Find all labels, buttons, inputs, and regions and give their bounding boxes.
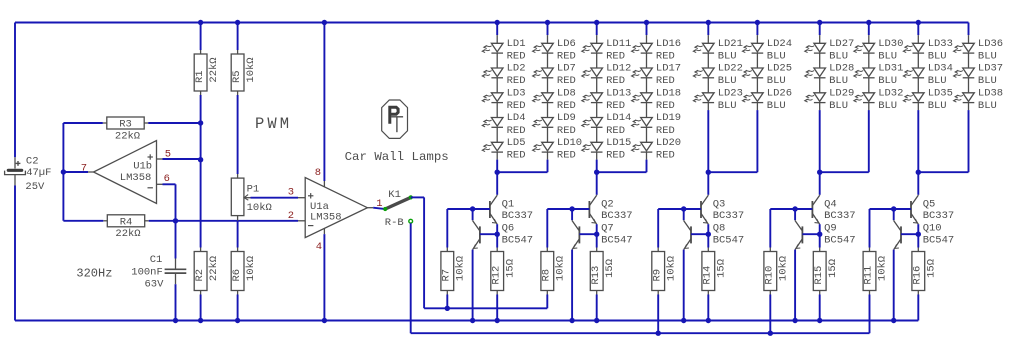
svg-text:R13: R13 — [590, 266, 602, 285]
svg-text:RED: RED — [606, 150, 625, 162]
svg-text:LD21: LD21 — [718, 38, 743, 50]
svg-text:LD22: LD22 — [718, 63, 743, 75]
svg-text:R16: R16 — [912, 266, 924, 285]
svg-text:5: 5 — [165, 148, 171, 160]
svg-text:3: 3 — [288, 187, 294, 199]
svg-text:BLU: BLU — [767, 75, 786, 87]
svg-text:RED: RED — [606, 51, 625, 63]
svg-text:K1: K1 — [388, 189, 401, 201]
svg-text:Q10: Q10 — [923, 223, 942, 235]
svg-text:R12: R12 — [490, 266, 502, 285]
svg-text:RED: RED — [507, 51, 526, 63]
svg-text:10kΩ: 10kΩ — [245, 256, 257, 281]
svg-text:LD6: LD6 — [557, 38, 576, 50]
svg-text:BC337: BC337 — [601, 210, 633, 222]
svg-text:BLU: BLU — [767, 100, 786, 112]
svg-text:LD19: LD19 — [656, 112, 681, 124]
svg-text:2: 2 — [288, 210, 294, 222]
svg-text:Q8: Q8 — [713, 223, 726, 235]
svg-text:LD8: LD8 — [557, 87, 576, 99]
svg-text:10kΩ: 10kΩ — [877, 256, 889, 281]
svg-text:P1: P1 — [247, 183, 260, 195]
svg-text:BC547: BC547 — [502, 234, 534, 246]
svg-text:BLU: BLU — [718, 75, 737, 87]
svg-text:LD17: LD17 — [656, 63, 681, 75]
svg-text:RED: RED — [656, 51, 675, 63]
svg-text:LD20: LD20 — [656, 137, 681, 149]
svg-text:15Ω: 15Ω — [604, 259, 616, 278]
svg-text:LD31: LD31 — [878, 63, 903, 75]
svg-text:C2: C2 — [26, 155, 39, 167]
svg-text:LD23: LD23 — [718, 87, 743, 99]
svg-text:LD1: LD1 — [507, 38, 526, 50]
svg-text:22kΩ: 22kΩ — [208, 256, 220, 281]
svg-text:BC547: BC547 — [713, 234, 745, 246]
svg-text:BLU: BLU — [928, 100, 947, 112]
svg-text:Q7: Q7 — [601, 223, 614, 235]
svg-text:22kΩ: 22kΩ — [115, 228, 140, 240]
svg-text:RED: RED — [557, 150, 576, 162]
svg-text:BLU: BLU — [878, 51, 897, 63]
svg-text:BLU: BLU — [767, 51, 786, 63]
svg-text:R9: R9 — [651, 269, 663, 282]
svg-text:100nF: 100nF — [131, 266, 163, 278]
svg-text:15Ω: 15Ω — [716, 259, 728, 278]
svg-text:8: 8 — [315, 167, 321, 179]
svg-text:63V: 63V — [144, 279, 164, 291]
svg-text:RED: RED — [656, 125, 675, 137]
svg-text:LD30: LD30 — [878, 38, 903, 50]
svg-text:R11: R11 — [863, 266, 875, 285]
svg-text:BC337: BC337 — [824, 210, 856, 222]
svg-text:BLU: BLU — [718, 100, 737, 112]
svg-text:BC337: BC337 — [923, 210, 955, 222]
svg-text:Car Wall Lamps: Car Wall Lamps — [345, 150, 449, 164]
svg-text:Q4: Q4 — [824, 199, 837, 211]
svg-text:LM358: LM358 — [120, 172, 152, 184]
svg-text:Q5: Q5 — [923, 199, 936, 211]
svg-text:BC337: BC337 — [713, 210, 745, 222]
svg-text:LD36: LD36 — [978, 38, 1003, 50]
svg-text:LD14: LD14 — [606, 112, 631, 124]
svg-text:LD28: LD28 — [829, 63, 854, 75]
svg-text:6: 6 — [164, 173, 170, 185]
svg-text:10kΩ: 10kΩ — [665, 256, 677, 281]
svg-text:RED: RED — [557, 75, 576, 87]
svg-text:LD18: LD18 — [656, 87, 681, 99]
svg-text:RED: RED — [557, 100, 576, 112]
svg-text:RED: RED — [507, 125, 526, 137]
svg-text:R8: R8 — [541, 269, 553, 282]
svg-text:RED: RED — [606, 100, 625, 112]
svg-text:U1b: U1b — [133, 161, 152, 173]
svg-text:C1: C1 — [150, 254, 163, 266]
svg-text:BLU: BLU — [928, 75, 947, 87]
svg-text:R2: R2 — [194, 269, 206, 282]
svg-text:10kΩ: 10kΩ — [778, 256, 790, 281]
svg-text:R14: R14 — [702, 266, 714, 285]
svg-text:LD3: LD3 — [507, 87, 526, 99]
svg-text:BC547: BC547 — [824, 234, 856, 246]
svg-text:RED: RED — [656, 150, 675, 162]
svg-text:LD12: LD12 — [606, 63, 631, 75]
svg-text:LD27: LD27 — [829, 38, 854, 50]
svg-text:RED: RED — [507, 150, 526, 162]
svg-text:BLU: BLU — [978, 75, 997, 87]
svg-text:RED: RED — [656, 100, 675, 112]
svg-text:RED: RED — [507, 75, 526, 87]
svg-text:BLU: BLU — [829, 51, 848, 63]
svg-text:15Ω: 15Ω — [827, 259, 839, 278]
svg-text:Q1: Q1 — [502, 199, 515, 211]
svg-text:LD16: LD16 — [656, 38, 681, 50]
svg-text:R1: R1 — [194, 70, 206, 83]
svg-text:15Ω: 15Ω — [504, 259, 516, 278]
svg-text:BC547: BC547 — [923, 234, 955, 246]
svg-text:Q6: Q6 — [502, 223, 515, 235]
svg-text:LD7: LD7 — [557, 63, 576, 75]
svg-text:BLU: BLU — [878, 100, 897, 112]
svg-text:LD33: LD33 — [928, 38, 953, 50]
svg-text:LD13: LD13 — [606, 87, 631, 99]
svg-text:Q2: Q2 — [601, 199, 614, 211]
svg-text:25V: 25V — [25, 181, 45, 193]
svg-text:R5: R5 — [231, 70, 243, 83]
svg-text:BLU: BLU — [978, 100, 997, 112]
svg-text:RED: RED — [606, 125, 625, 137]
svg-text:10kΩ: 10kΩ — [245, 57, 257, 82]
svg-text:BLU: BLU — [829, 75, 848, 87]
svg-text:15Ω: 15Ω — [926, 259, 938, 278]
svg-text:R3: R3 — [119, 119, 132, 131]
svg-text:R6: R6 — [231, 269, 243, 282]
svg-text:BLU: BLU — [928, 51, 947, 63]
svg-text:LD2: LD2 — [507, 63, 526, 75]
svg-text:LD38: LD38 — [978, 87, 1003, 99]
svg-text:R7: R7 — [441, 269, 453, 282]
svg-text:BLU: BLU — [718, 51, 737, 63]
svg-text:RED: RED — [557, 125, 576, 137]
svg-text:R-B: R-B — [385, 217, 404, 229]
svg-text:47µF: 47µF — [26, 167, 51, 179]
svg-text:LD25: LD25 — [767, 63, 792, 75]
svg-text:BLU: BLU — [978, 51, 997, 63]
svg-text:22kΩ: 22kΩ — [115, 130, 140, 142]
svg-text:BLU: BLU — [829, 100, 848, 112]
svg-text:10kΩ: 10kΩ — [455, 256, 467, 281]
svg-text:10kΩ: 10kΩ — [555, 256, 567, 281]
svg-text:LD32: LD32 — [878, 87, 903, 99]
svg-text:LD4: LD4 — [507, 112, 526, 124]
svg-text:LD9: LD9 — [557, 112, 576, 124]
svg-text:BC547: BC547 — [601, 234, 633, 246]
svg-text:LD26: LD26 — [767, 87, 792, 99]
svg-text:LD15: LD15 — [606, 137, 631, 149]
svg-text:LD10: LD10 — [557, 137, 582, 149]
svg-text:Q9: Q9 — [824, 223, 837, 235]
svg-text:R15: R15 — [813, 266, 825, 285]
svg-text:LD34: LD34 — [928, 63, 953, 75]
svg-text:Q3: Q3 — [713, 199, 726, 211]
svg-text:LD37: LD37 — [978, 63, 1003, 75]
svg-text:R4: R4 — [120, 216, 133, 228]
svg-text:BC337: BC337 — [502, 210, 534, 222]
svg-text:22kΩ: 22kΩ — [208, 57, 220, 82]
svg-text:LD11: LD11 — [606, 38, 631, 50]
svg-text:R10: R10 — [764, 266, 776, 285]
svg-text:BLU: BLU — [878, 75, 897, 87]
svg-text:LD29: LD29 — [829, 87, 854, 99]
svg-text:LD24: LD24 — [767, 38, 792, 50]
svg-text:RED: RED — [656, 75, 675, 87]
svg-text:320Hz: 320Hz — [76, 267, 112, 281]
svg-text:PWM: PWM — [255, 115, 292, 133]
svg-text:7: 7 — [81, 162, 87, 174]
svg-text:RED: RED — [606, 75, 625, 87]
svg-text:LD5: LD5 — [507, 137, 526, 149]
svg-text:RED: RED — [507, 100, 526, 112]
svg-text:LD35: LD35 — [928, 87, 953, 99]
svg-text:LM358: LM358 — [310, 212, 342, 224]
svg-text:4: 4 — [316, 241, 322, 253]
svg-text:RED: RED — [557, 51, 576, 63]
svg-text:10kΩ: 10kΩ — [247, 202, 272, 214]
